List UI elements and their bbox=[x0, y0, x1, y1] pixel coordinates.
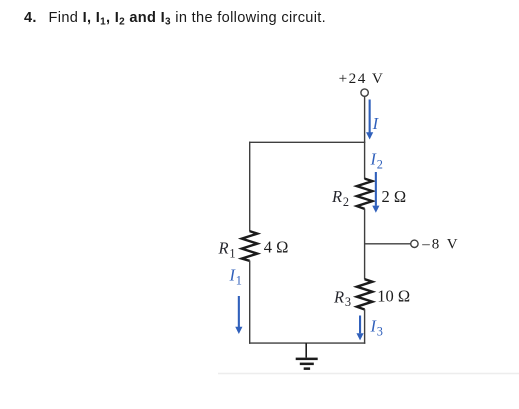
node +24V terminal circle bbox=[361, 89, 368, 96]
wire: left branch down to R1 bbox=[249, 142, 251, 232]
title text bbox=[24, 10, 326, 26]
current arrow I3 bbox=[356, 316, 363, 341]
wire: left branch R1 bottom to bottom wire bbox=[249, 261, 251, 344]
svg-text:R1: R1 bbox=[218, 239, 236, 261]
svg-text:R3: R3 bbox=[333, 287, 351, 309]
svg-text:–8 V: –8 V bbox=[421, 237, 459, 253]
svg-text:10 Ω: 10 Ω bbox=[377, 286, 410, 305]
current arrow I2 bbox=[372, 172, 379, 213]
wire: bottom horizontal bbox=[249, 342, 365, 344]
svg-text:R2: R2 bbox=[331, 187, 349, 209]
resistor R3 zigzag bbox=[357, 279, 373, 309]
wire: right branch R2 bottom to R3 top bbox=[364, 209, 366, 280]
svg-text:I3: I3 bbox=[370, 317, 383, 339]
current arrow I bbox=[366, 100, 373, 140]
node -8V terminal circle bbox=[411, 240, 418, 247]
ground bbox=[296, 343, 318, 370]
resistor R1 zigzag bbox=[242, 231, 258, 261]
wire: right branch R3 bottom to bottom wire bbox=[364, 309, 366, 344]
resistor R2 zigzag bbox=[357, 179, 373, 209]
wire: from +24V terminal down to R2 top bbox=[364, 96, 366, 179]
wire: -8V stub bbox=[365, 243, 411, 245]
svg-text:4 Ω: 4 Ω bbox=[264, 238, 289, 257]
svg-text:I2: I2 bbox=[370, 150, 383, 172]
svg-text:+24 V: +24 V bbox=[339, 70, 385, 87]
current arrow I1 bbox=[235, 296, 242, 334]
page edge faint line bbox=[218, 373, 519, 375]
svg-text:2 Ω: 2 Ω bbox=[382, 187, 407, 206]
svg-text:I: I bbox=[372, 114, 380, 133]
svg-text:I1: I1 bbox=[229, 266, 242, 288]
wire: top horizontal branch to left bbox=[249, 141, 365, 143]
